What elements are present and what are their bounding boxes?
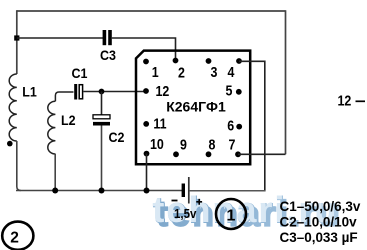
svg-text:C3–0,033 µF: C3–0,033 µF — [280, 229, 358, 245]
wire bottom bus left — [16, 190, 182, 192]
svg-text:4: 4 — [228, 64, 235, 80]
wire C1 right to pin 12 — [83, 91, 146, 93]
wire pin 4 to battery plus — [239, 61, 265, 190]
inductor L1 — [9, 74, 17, 141]
wire top frame — [17, 10, 286, 12]
svg-text:L2: L2 — [61, 112, 76, 128]
pin 2 — [173, 58, 179, 64]
svg-text:К264ГФ1: К264ГФ1 — [166, 99, 226, 115]
svg-text:2: 2 — [10, 230, 19, 247]
svg-text:3: 3 — [211, 64, 218, 80]
node junction pin10 wire / bus — [144, 188, 150, 194]
pin 8 — [206, 151, 212, 157]
svg-text:C2: C2 — [109, 129, 125, 145]
svg-text:6: 6 — [227, 117, 234, 133]
terminal circle 1 — [216, 199, 246, 229]
pin 9 — [173, 151, 179, 157]
wire 12 callout dash — [356, 100, 366, 102]
node L1 winding start dot — [7, 141, 13, 147]
node junction C2 / bus — [99, 188, 105, 194]
svg-text:12: 12 — [156, 83, 170, 99]
wire battery plus to pin4 drop — [190, 190, 266, 192]
wire C3 left — [17, 37, 103, 39]
svg-text:5: 5 — [226, 83, 233, 99]
pin 12 — [143, 88, 149, 94]
pin 10 — [144, 151, 150, 157]
capacitor C3 — [103, 30, 112, 45]
wire C3 right to pin 2 — [112, 38, 176, 60]
svg-text:2: 2 — [178, 65, 185, 81]
pin 7 — [235, 151, 241, 157]
svg-text:1: 1 — [227, 207, 236, 224]
pin 3 — [206, 58, 212, 64]
wire pin 10 to bus — [146, 154, 148, 191]
svg-text:7: 7 — [229, 137, 236, 153]
pin 1 — [143, 59, 149, 65]
battery GB1 minus plate — [182, 184, 185, 198]
capacitor C2 — [93, 115, 110, 126]
svg-text:12: 12 — [338, 93, 352, 109]
svg-text:8: 8 — [209, 137, 216, 153]
node junction C1 / C2 — [99, 89, 105, 95]
wire pin 7 to right rail — [238, 153, 286, 155]
wire C2 bottom to bus — [101, 126, 103, 191]
wire L2 bottom to bus — [54, 154, 56, 191]
wire left rail — [16, 10, 18, 74]
wire right rail — [285, 10, 287, 154]
wire L1 bottom to bus — [17, 141, 21, 191]
svg-text:C1: C1 — [72, 65, 88, 81]
svg-text:1: 1 — [152, 64, 159, 80]
battery minus sign — [172, 200, 178, 202]
svg-text:11: 11 — [153, 116, 167, 132]
pin 11 — [143, 121, 149, 127]
wire C2 top — [101, 92, 103, 115]
node junction L2 / bus — [52, 188, 58, 194]
pin 4 — [236, 58, 242, 64]
terminal circle 2 — [2, 222, 33, 250]
node junction left rail / C3 wire — [14, 35, 19, 40]
svg-text:1,5v: 1,5v — [174, 206, 197, 221]
op-amp U1 K264GF1 box — [136, 51, 250, 165]
svg-text:C3: C3 — [100, 47, 116, 63]
svg-text:9: 9 — [180, 137, 187, 153]
svg-text:C1–50,0/6,3v: C1–50,0/6,3v — [280, 197, 361, 213]
svg-text:L1: L1 — [22, 84, 37, 100]
battery GB1 plus plate — [188, 177, 190, 204]
svg-text:C2–10,0/10v: C2–10,0/10v — [280, 213, 357, 229]
svg-text:10: 10 — [150, 136, 164, 152]
battery plus sign — [196, 199, 202, 205]
wire L2 top bend to C1 — [55, 92, 73, 101]
pin 5 — [236, 89, 242, 95]
inductor L2 — [48, 101, 56, 154]
pin 6 — [236, 124, 242, 130]
capacitor C1 — [74, 84, 82, 100]
